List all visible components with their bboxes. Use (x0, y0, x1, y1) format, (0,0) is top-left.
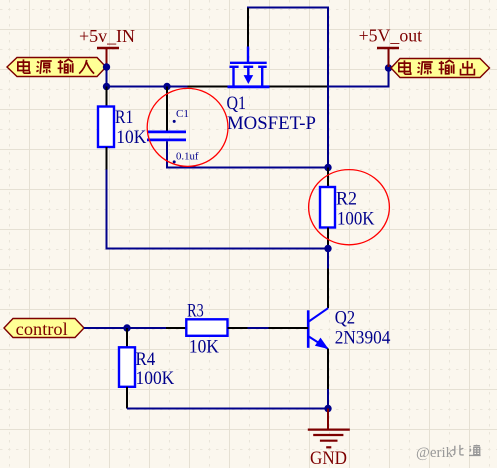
glyph 电 (18, 59, 30, 73)
annotation circle around C1 (147, 88, 228, 166)
junction control node (123, 324, 130, 331)
svg-text:Q1: Q1 (227, 94, 247, 114)
junction ground node (324, 405, 331, 412)
port flag control (4, 319, 84, 340)
glyph 北 (452, 445, 464, 455)
power port +5v_IN (79, 26, 135, 66)
pin Q1 source (270, 86, 329, 88)
svg-text:100K: 100K (136, 369, 175, 389)
watermark @erik北通 (416, 445, 481, 461)
pin R1 bottom (106, 147, 108, 170)
wire control flag to base node (84, 327, 127, 329)
wire gate loop (248, 8, 328, 168)
pin R2 bottom (327, 228, 329, 249)
glyph 入 (79, 60, 94, 74)
pin Q2 collector (327, 269, 329, 309)
anchor dot C1 label (173, 120, 176, 123)
capacitor C1 (147, 132, 186, 140)
port flag 电源输出 (391, 59, 490, 78)
junction C1 tap (163, 83, 170, 90)
svg-text:100K: 100K (337, 210, 375, 230)
svg-text:@erik: @erik (416, 445, 454, 461)
glyph 输 (439, 60, 454, 74)
pin R3 right (228, 327, 248, 329)
power port +5V_out (359, 26, 423, 68)
svg-text:10K: 10K (116, 128, 147, 148)
pin R2 top (327, 168, 329, 188)
junction R2 top node (324, 164, 331, 171)
svg-text:R4: R4 (136, 350, 156, 370)
junction R2 bottom node (324, 245, 331, 252)
wire Q1 source to output corner (328, 68, 389, 87)
anchor dot 0.1uf label (173, 160, 176, 163)
svg-text:GND: GND (310, 449, 347, 468)
junction output node (385, 64, 392, 71)
wire R3 to Q2 base pin (248, 327, 269, 329)
resistor R1 (98, 107, 114, 148)
pin R4 bottom (126, 387, 128, 409)
svg-text:+5V_out: +5V_out (359, 26, 423, 46)
svg-text:R3: R3 (187, 302, 204, 322)
glyph 通 (469, 445, 481, 456)
svg-text:2N3904: 2N3904 (335, 329, 391, 349)
wire input node down (106, 67, 108, 87)
pin C1 bottom and wire to gate net (167, 141, 328, 167)
pin R1 top (106, 87, 108, 107)
glyph 出 (461, 61, 475, 75)
wire C1 tap to Q1 drain pin (167, 86, 188, 88)
svg-text:Q2: Q2 (335, 309, 356, 329)
junction input node A (103, 63, 110, 70)
wire Q2 emitter to ground node (327, 389, 329, 409)
resistor R3 (186, 319, 227, 336)
transistor Q1 MOSFET-P symbol (228, 47, 270, 87)
ground GND power port (308, 409, 350, 448)
wire node B to C1 tap (107, 86, 168, 88)
wire control node to R3 (127, 327, 166, 329)
glyph 源 (36, 61, 51, 74)
svg-text:0.1uf: 0.1uf (176, 152, 199, 163)
pin R3 left (166, 327, 186, 329)
junction node B (103, 83, 110, 90)
svg-text:R2: R2 (336, 189, 357, 209)
glyph 电 (399, 60, 411, 74)
svg-text:R1: R1 (115, 108, 133, 128)
svg-text:MOSFET-P: MOSFET-P (227, 114, 316, 134)
svg-text:10K: 10K (189, 337, 220, 357)
pin Q1 gate (black upper) (247, 8, 249, 47)
pin Q1 drain (188, 86, 228, 88)
pin R4 top (126, 328, 128, 347)
transistor Q2 2N3904 symbol (308, 308, 328, 349)
svg-text:C1: C1 (176, 109, 189, 120)
svg-text:+5v_IN: +5v_IN (79, 26, 135, 46)
glyph 输 (58, 59, 73, 73)
pin C1 top (166, 87, 168, 131)
svg-text:control: control (16, 319, 68, 339)
resistor R4 (119, 347, 135, 387)
pin Q2 emitter (327, 349, 329, 390)
glyph 源 (417, 62, 432, 75)
resistor R2 (320, 187, 335, 228)
wire R1 bottom to gate net corner (107, 170, 329, 249)
wire R4 bottom to ground node (127, 408, 328, 410)
annotation circle around R2 (309, 170, 390, 245)
wire R2 bottom to Q2 collector pin (327, 249, 329, 269)
port flag 电源输入 (7, 58, 106, 77)
pin Q2 base (269, 327, 309, 329)
